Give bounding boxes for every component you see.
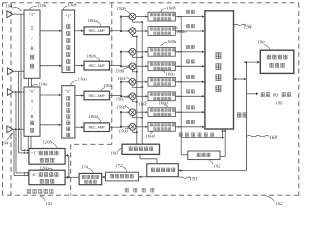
label 168 with wavy leader: [247, 136, 269, 137]
mixer 150a (row 4): [129, 63, 136, 70]
svg-text:150d: 150d: [119, 128, 129, 133]
svg-text:130a: 130a: [78, 76, 88, 81]
label timing strobe signals: [179, 132, 183, 136]
label bus (zongxian): [237, 112, 242, 117]
amplifier 180d REC. AMP: [84, 123, 110, 132]
svg-text:110a: 110a: [39, 81, 49, 86]
svg-text:REC. AMP: REC. AMP: [89, 29, 106, 33]
svg-text:162: 162: [276, 201, 284, 206]
filter 160 (row 2): [148, 27, 175, 36]
wire element3 to T/R 110a: [13, 91, 24, 93]
wire mixer row 3 LO tap: [132, 55, 134, 57]
filter 160 (row 7): [148, 108, 175, 117]
svg-text:174: 174: [81, 165, 89, 170]
svg-text:120a: 120a: [40, 166, 50, 171]
svg-text:180b: 180b: [87, 54, 97, 59]
wire junction to mixer pair 3: [121, 81, 129, 83]
label electronics portion (on border): [125, 188, 129, 192]
svg-text:I/O: I/O: [273, 93, 279, 98]
quadrature generator 160: [122, 144, 160, 154]
wire beamformer to 180d: [75, 126, 84, 128]
label cosine: [186, 105, 190, 109]
svg-text:“1”: “1”: [29, 12, 35, 17]
label cosine: [186, 10, 190, 14]
wire transmit path TB1 to element line 2: [18, 71, 20, 153]
wire mixer row 7 LO tap: [132, 115, 134, 117]
wire T/R 110a to beamformer (lower): [40, 124, 62, 126]
filter 160 (row 4): [148, 62, 175, 71]
svg-text:160: 160: [111, 150, 119, 155]
T/R switch 110b (channel 1): [24, 10, 40, 78]
svg-text:160a: 160a: [177, 29, 187, 34]
junction dots on row wire y=96.3: [178, 95, 180, 97]
wire mixer to filter (row 3): [136, 51, 148, 53]
svg-text:130b: 130b: [68, 3, 78, 8]
wire transmit path TB1 to element line 1: [20, 14, 22, 150]
wire 172 to 174: [102, 176, 106, 178]
svg-text:REC. AMP: REC. AMP: [89, 64, 106, 68]
svg-text:150c: 150c: [116, 97, 125, 102]
wire mixer row 1 LO tap: [132, 20, 134, 22]
wire mixer to filter (row 8): [136, 126, 148, 128]
transducer element (second): [7, 68, 13, 75]
dashed outer border (electronics portion 162): [3, 2, 299, 4]
svg-text:160b: 160b: [167, 39, 177, 44]
filter 160 (row 8): [148, 122, 175, 131]
svg-text:104: 104: [6, 4, 14, 9]
label parallel I/O port 196: [261, 92, 265, 96]
label transducer assembly (on border): [27, 189, 31, 194]
amplifier 180b REC. AMP: [84, 61, 110, 70]
wire mixer row 5 LO tap: [132, 85, 134, 87]
wire mixer to filter (row 5): [136, 81, 148, 83]
wire T/R 110a to beamformer (upper): [40, 94, 62, 96]
label 170 with wavy leader: [179, 177, 191, 178]
svg-text:104: 104: [2, 141, 10, 146]
svg-text:194: 194: [244, 25, 252, 31]
junction dots on row wire y=31: [178, 30, 180, 32]
wire strobe distribution line x=181.2: [180, 17, 182, 138]
receive beamformer 130b (channel 1): [62, 10, 75, 73]
label cosine: [186, 45, 190, 49]
junction dots on row wire y=66.3: [178, 65, 180, 67]
label sine: [186, 59, 190, 63]
label sine: [186, 120, 190, 124]
amplifier 180c REC. AMP: [84, 91, 110, 100]
mixer 150a (row 3): [129, 48, 136, 55]
mixer 150c (row 6): [129, 93, 136, 100]
mixer 150b (row 2): [129, 28, 136, 35]
transmit beamformer 120b (channel 1): [29, 149, 65, 165]
svg-text:“n”: “n”: [29, 89, 35, 94]
wire 170 to 172: [139, 176, 147, 178]
wire filter to sampling module (row 4): [175, 65, 205, 67]
filter 160 (row 6): [148, 92, 175, 101]
wire mixer row 8 LO tap: [132, 130, 134, 132]
svg-text:150b: 150b: [117, 6, 127, 11]
wire 174 to TB2: [65, 176, 79, 178]
wire LO trunk B (x=142.2) from quadrature generator 160: [141, 22, 143, 144]
svg-text:T: T: [31, 99, 34, 104]
wire junction to mixer pair 1: [121, 16, 129, 18]
wire REC 180a output to junction: [110, 30, 122, 32]
wire beamformer to 180a: [75, 30, 84, 32]
filter 160 (row 3): [148, 47, 175, 56]
controller 192: [188, 151, 220, 160]
timing generator 170: [147, 164, 179, 177]
junction dots on row wire y=81.8: [178, 81, 180, 83]
wire element1 to T/R 110b: [13, 13, 24, 15]
wire filter to sampling module (row 7): [175, 111, 205, 113]
wire filter to sampling module (row 6): [175, 95, 205, 97]
receive beamformer 130a (channel n): [62, 86, 75, 138]
wire bus to parallel I/O port: [247, 93, 258, 95]
svg-text:102: 102: [46, 201, 54, 206]
wire mixer to filter (row 1): [136, 16, 148, 18]
wire mixer to filter (row 4): [136, 65, 148, 67]
svg-text:180d: 180d: [89, 114, 99, 119]
wire mixer row 4 LO tap: [132, 69, 134, 71]
wire DSP to bus (double arrow): [244, 61, 260, 63]
svg-text:REC. AMP: REC. AMP: [89, 126, 106, 130]
digital signal processor 190: [260, 50, 294, 73]
svg-text:150d: 150d: [117, 105, 127, 110]
dashed boundary of transducer assembly 102: [10, 3, 12, 195]
mixer 150b (row 1): [129, 13, 136, 20]
junction dots on row wire y=126.8: [178, 126, 180, 128]
wire bus to timing generator: [178, 170, 246, 172]
wire mixer to filter (row 7): [136, 111, 148, 113]
wire filter to sampling module (row 8): [175, 126, 205, 128]
svg-text:110b: 110b: [38, 3, 48, 8]
label sine: [186, 89, 190, 93]
wire filter to sampling module (row 5): [175, 81, 205, 83]
bus 168 vertical line: [246, 62, 248, 170]
transducer element 104 (bottom): [7, 126, 13, 133]
svg-text:REC. AMP: REC. AMP: [89, 94, 106, 98]
mixer 150c (row 5): [129, 78, 136, 85]
svg-text:160b: 160b: [167, 5, 177, 10]
junction dots on row wire y=16.6: [178, 16, 180, 18]
svg-text:T: T: [30, 27, 33, 32]
wire sampling module to bus: [234, 78, 247, 80]
wire branch to TB1: [68, 155, 70, 177]
svg-text:“n”: “n”: [65, 89, 71, 94]
mixer 150d (row 7): [129, 109, 136, 116]
wire REC 180c output to junction: [110, 95, 122, 97]
svg-text:“1”: “1”: [65, 14, 71, 19]
wire beamformer to 180b: [75, 65, 84, 67]
svg-text:172: 172: [116, 163, 124, 168]
wire filter to sampling module (row 3): [175, 51, 205, 53]
amplifier 180a REC. AMP: [84, 27, 110, 35]
wire mixer row 2 LO tap: [132, 34, 134, 36]
T/R switch 110a (channel n): [24, 87, 40, 136]
wire filter to sampling module (row 2): [175, 30, 205, 32]
wire T/R 110b to beamformer (upper): [40, 30, 62, 32]
transmit beamformer 120a (channel n): [29, 170, 65, 185]
wire controller right to sampling module: [220, 155, 225, 157]
svg-text:168: 168: [269, 135, 277, 141]
wire junction to mixer pair 2: [121, 51, 129, 53]
wire T/R1 bottom stubs: [28, 78, 30, 87]
high-level shifter 174: [79, 173, 102, 184]
label sine: [186, 24, 190, 28]
code generator 172: [105, 172, 138, 181]
filter 160 (row 5): [148, 77, 175, 86]
wire LO trunk A (x=136.8) from quadrature generator 160: [136, 37, 138, 145]
junction dots on row wire y=51.8: [178, 51, 180, 53]
svg-text:190: 190: [258, 39, 266, 44]
wire REC 180d output to junction: [110, 126, 122, 128]
svg-text:160d: 160d: [146, 134, 156, 139]
svg-text:“1”: “1”: [31, 150, 37, 155]
svg-text:120b: 120b: [43, 140, 53, 145]
wire timing generator to quadrature generator: [156, 159, 158, 164]
wire element4 to T/R 110a: [13, 128, 24, 130]
wire controller left to sampling module (strobe): [181, 154, 188, 156]
svg-text:160c: 160c: [139, 102, 148, 107]
sampling module 194: [205, 11, 234, 129]
transducer element 104 (top): [7, 11, 13, 18]
svg-text:192: 192: [214, 163, 222, 168]
svg-text:160d: 160d: [159, 100, 169, 105]
wire beamformer to 180c: [75, 95, 84, 97]
svg-text:180a: 180a: [88, 18, 98, 23]
wire mixer row 6 LO tap: [132, 99, 134, 101]
svg-text:“n”: “n”: [31, 172, 37, 177]
wire transmit path TB2 to element line 4: [13, 129, 15, 175]
filter 160 (row 1): [148, 12, 175, 21]
label 194 with wavy leader: [234, 24, 246, 25]
wire mixer to filter (row 6): [136, 95, 148, 97]
wire T/R2 bottom stubs to TB1: [27, 136, 29, 148]
wire transmit path TB2 to element line 3: [15, 92, 17, 173]
svg-text:160c: 160c: [118, 76, 127, 81]
wire filter to sampling module (row 1): [175, 16, 205, 18]
wire mixer to filter (row 2): [136, 30, 148, 32]
transducer element (third): [7, 89, 13, 96]
svg-text:160a: 160a: [166, 72, 176, 77]
junction dots on row wire y=112.2: [178, 111, 180, 113]
svg-text:170: 170: [189, 176, 197, 182]
svg-text:196: 196: [276, 100, 284, 105]
wire junction to mixer pair 4: [121, 111, 129, 113]
wire T/R 110b to beamformer (lower): [40, 65, 62, 67]
wire element2 to T/R 110b: [13, 70, 24, 72]
mixer 150d (row 8): [129, 123, 136, 130]
label cosine: [186, 75, 190, 79]
wire REC 180b output to junction: [110, 65, 122, 67]
